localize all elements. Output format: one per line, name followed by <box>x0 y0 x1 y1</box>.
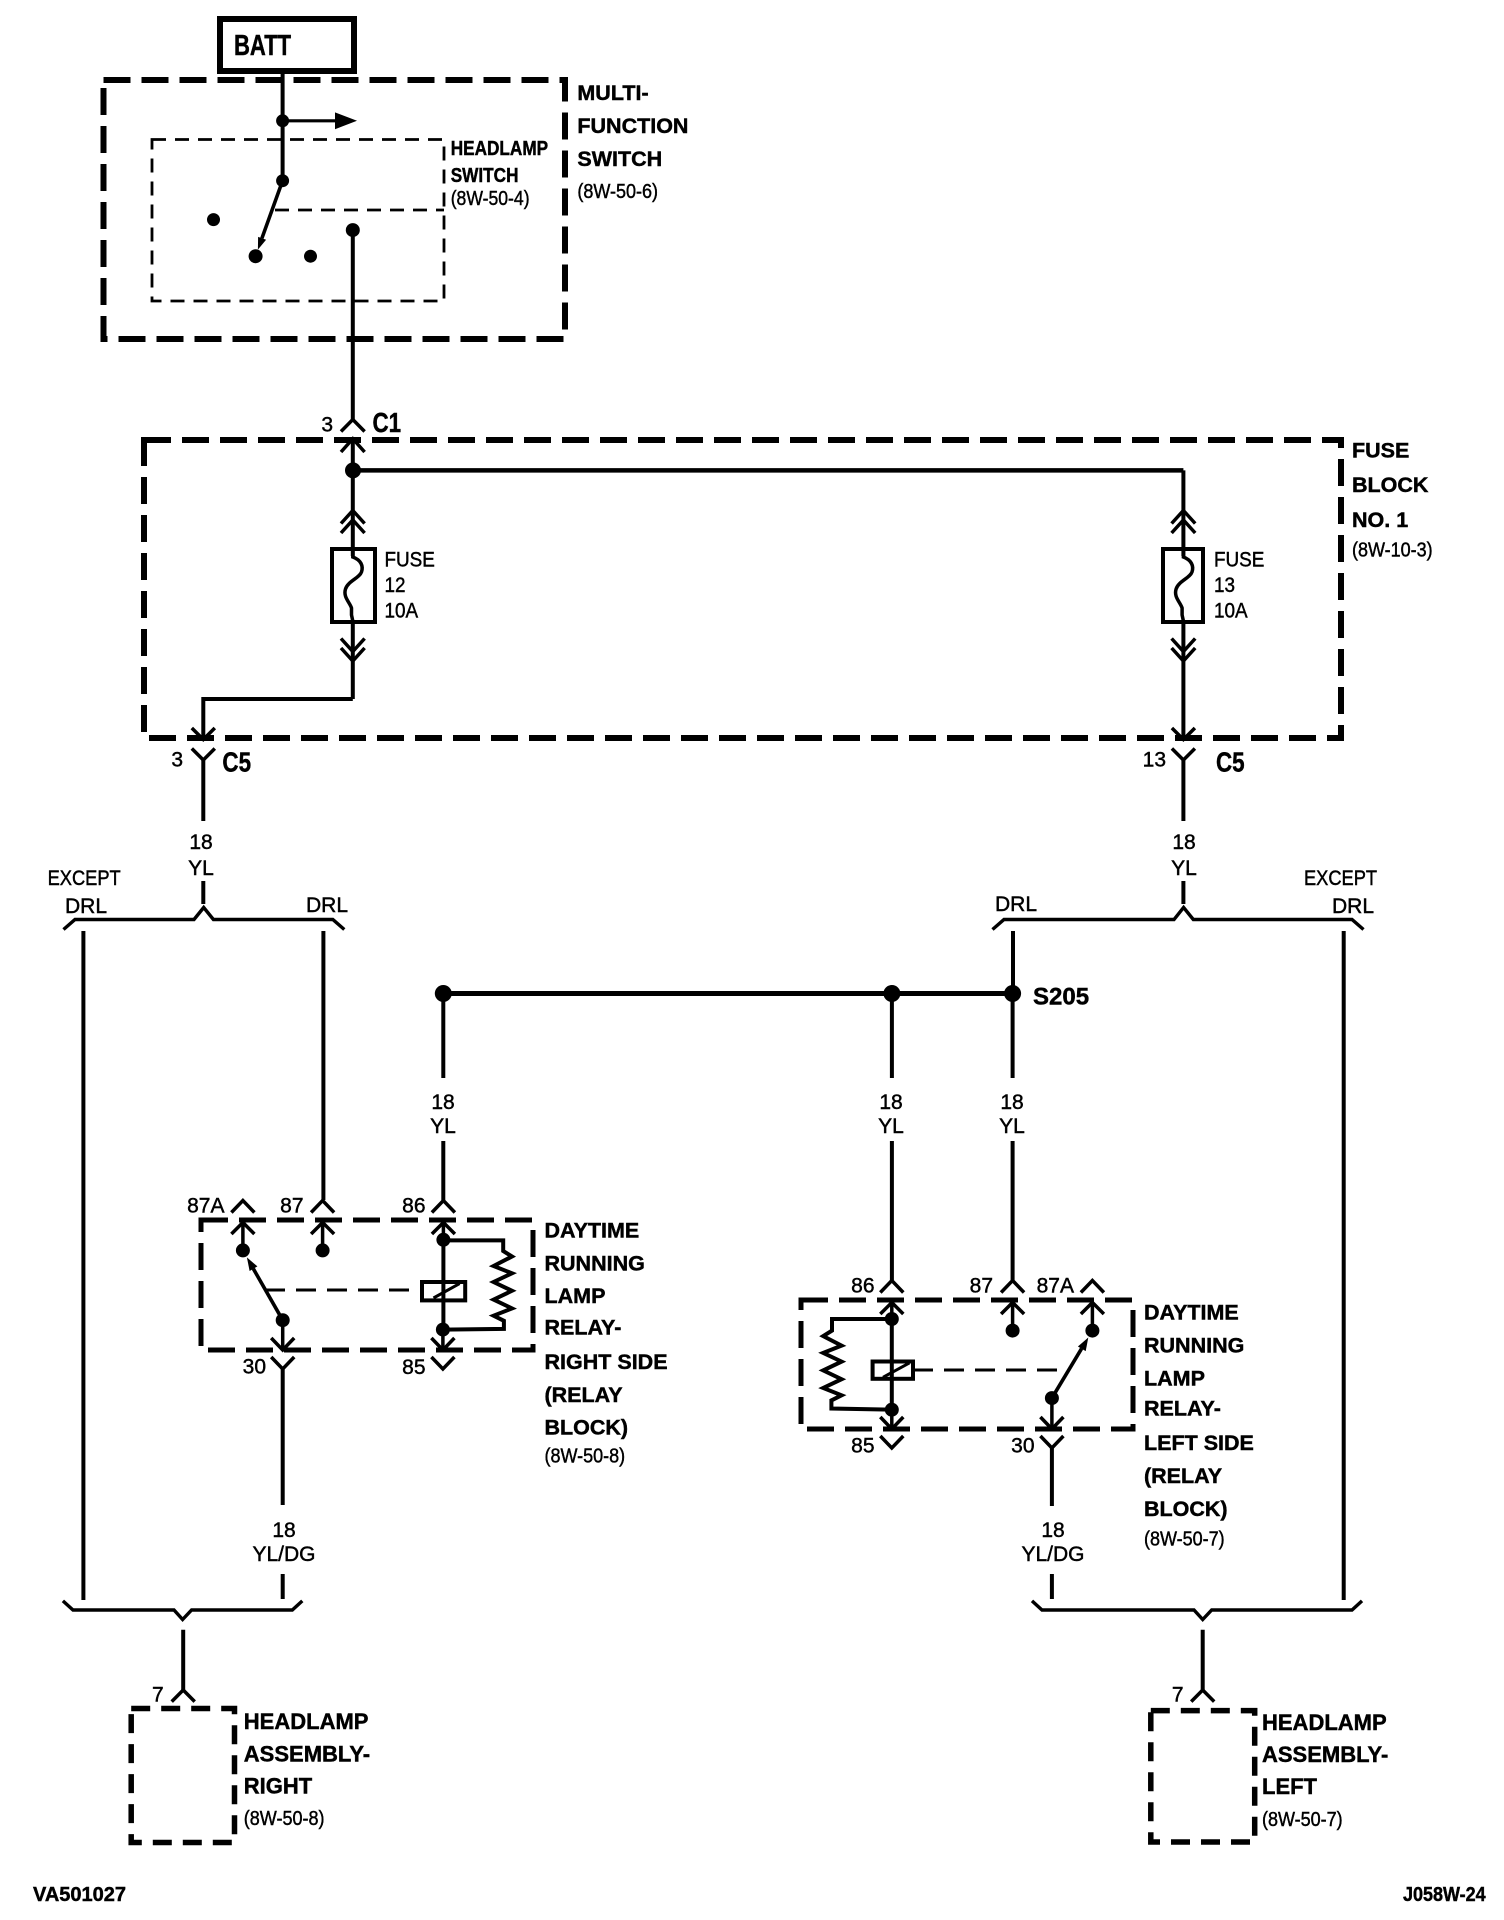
relay actuation dashed link left relay <box>265 1289 422 1292</box>
svg-text:(8W-50-8): (8W-50-8) <box>545 1446 626 1468</box>
svg-text:18: 18 <box>879 1091 902 1114</box>
pin 87 right relay <box>970 1275 1024 1331</box>
svg-text:87A: 87A <box>1037 1275 1074 1298</box>
svg-text:BLOCK): BLOCK) <box>545 1416 629 1440</box>
connector chevrons above fuse 12 <box>341 511 365 534</box>
svg-text:BATT: BATT <box>234 30 291 62</box>
svg-text:RIGHT: RIGHT <box>244 1774 313 1799</box>
node dot 87 left relay <box>316 1243 330 1257</box>
svg-text:DRL: DRL <box>1332 895 1374 918</box>
pin 87 left relay <box>280 1195 334 1251</box>
wire label 18 YL/DG left <box>252 1519 315 1599</box>
svg-text:86: 86 <box>851 1275 874 1298</box>
svg-text:13: 13 <box>1214 574 1235 597</box>
switch common node dot <box>276 174 289 187</box>
node B+ junction dot <box>276 114 289 127</box>
svg-text:DAYTIME: DAYTIME <box>1144 1301 1239 1325</box>
connector chevrons below fuse 12 <box>341 639 365 662</box>
node dot 85 right relay <box>885 1403 899 1417</box>
svg-text:18: 18 <box>1041 1519 1064 1542</box>
wire switch output down to C1 <box>351 230 355 419</box>
svg-text:(8W-10-3): (8W-10-3) <box>1352 540 1433 562</box>
node S205 dot middle <box>883 985 900 1002</box>
node dot 87 right relay <box>1006 1324 1020 1338</box>
svg-text:BLOCK): BLOCK) <box>1144 1497 1228 1521</box>
wire EXCEPT DRL right vertical <box>1342 931 1346 1600</box>
resistor left relay <box>443 1240 512 1329</box>
wire S205 to left relay pin 86 lower <box>441 1141 445 1200</box>
svg-text:(RELAY: (RELAY <box>545 1383 623 1407</box>
svg-text:ASSEMBLY-: ASSEMBLY- <box>1262 1742 1388 1767</box>
headlamp switch inner dashed box <box>152 140 444 302</box>
svg-text:18: 18 <box>1172 831 1195 854</box>
svg-text:BLOCK: BLOCK <box>1352 473 1429 497</box>
svg-text:18: 18 <box>272 1519 295 1542</box>
svg-text:7: 7 <box>1172 1684 1184 1707</box>
svg-text:FUSE: FUSE <box>1214 549 1264 572</box>
svg-text:87: 87 <box>970 1275 993 1298</box>
wire pin 30 down left relay <box>281 1369 285 1505</box>
wire S205 to right relay pin 87 upper <box>1011 994 1015 1079</box>
svg-text:J058W-24: J058W-24 <box>1403 1884 1486 1906</box>
wire label 18 YL right <box>1171 831 1197 904</box>
wire BATT to headlamp switch <box>281 71 285 181</box>
BATT feed box B+ <box>220 19 354 71</box>
switch contact dot middle <box>304 250 317 263</box>
svg-text:C5: C5 <box>1216 747 1245 778</box>
wire EXCEPT DRL left vertical <box>81 931 85 1600</box>
relay coil box right relay <box>873 1362 913 1379</box>
svg-text:RELAY-: RELAY- <box>1144 1397 1221 1421</box>
splice options brace left <box>64 908 345 930</box>
switch contact dot PARK <box>207 213 220 226</box>
svg-text:(8W-50-7): (8W-50-7) <box>1262 1809 1343 1831</box>
svg-text:EXCEPT: EXCEPT <box>48 867 121 890</box>
svg-text:10A: 10A <box>1214 600 1248 623</box>
svg-text:FUNCTION: FUNCTION <box>577 114 688 138</box>
node dot 30 right relay <box>1045 1391 1059 1405</box>
node dot 87A right relay <box>1085 1324 1099 1338</box>
svg-text:13: 13 <box>1143 749 1166 772</box>
svg-text:YL/DG: YL/DG <box>252 1543 315 1566</box>
connector C1 pin 3 <box>321 408 401 471</box>
wire coil vertical left relay <box>441 1240 445 1330</box>
svg-text:LAMP: LAMP <box>545 1284 606 1308</box>
svg-text:FUSE: FUSE <box>1352 439 1409 463</box>
relay actuation dashed link right relay <box>913 1369 1058 1372</box>
svg-text:MULTI-: MULTI- <box>577 81 648 105</box>
headlamp assembly right dashed box <box>131 1709 234 1843</box>
wire DRL left vertical to pin 87 <box>321 931 325 1200</box>
svg-text:LEFT: LEFT <box>1262 1774 1318 1799</box>
pin 30 right relay <box>1011 1398 1063 1457</box>
connector C5 pin 3 exit <box>171 728 251 821</box>
node dot 86 left relay <box>436 1233 450 1247</box>
svg-text:DRL: DRL <box>65 895 107 918</box>
wire down to fuse 13 <box>1181 470 1185 556</box>
svg-text:87A: 87A <box>187 1195 224 1218</box>
svg-text:18: 18 <box>431 1091 454 1114</box>
label EXCEPT DRL left <box>48 867 121 918</box>
svg-text:30: 30 <box>243 1356 266 1379</box>
switch contact dot OFF <box>249 249 263 263</box>
svg-text:30: 30 <box>1011 1435 1034 1458</box>
node dot 86 right relay <box>885 1312 899 1326</box>
svg-text:DRL: DRL <box>995 893 1037 916</box>
wire S205 to right relay pin 86 upper <box>890 994 894 1079</box>
svg-text:LEFT SIDE: LEFT SIDE <box>1144 1431 1254 1455</box>
pin 86 left relay <box>402 1195 455 1240</box>
wire below fuse 12 <box>351 622 355 699</box>
svg-text:3: 3 <box>321 414 333 437</box>
pin 30 left relay <box>243 1320 295 1378</box>
svg-text:HEADLAMP: HEADLAMP <box>244 1709 369 1734</box>
wire label 18 YL/DG right <box>1021 1519 1084 1599</box>
svg-text:HEADLAMP: HEADLAMP <box>1262 1710 1387 1735</box>
label headlamp switch <box>451 137 548 209</box>
wire label 18 YL (left relay 86) <box>430 1091 456 1138</box>
svg-text:SWITCH: SWITCH <box>577 147 662 171</box>
svg-text:VA501027: VA501027 <box>33 1884 126 1906</box>
svg-text:DAYTIME: DAYTIME <box>545 1219 640 1243</box>
connector chevrons below fuse 13 <box>1172 639 1196 662</box>
wire bus to fuse 13 <box>353 468 1183 473</box>
svg-text:HEADLAMP: HEADLAMP <box>451 137 548 160</box>
label headlamp assembly right <box>244 1709 370 1830</box>
node dot 30 left relay <box>276 1313 290 1327</box>
svg-text:LAMP: LAMP <box>1144 1367 1205 1391</box>
arrow to other circuits <box>283 112 357 129</box>
switch blade with arrowhead <box>258 181 283 250</box>
pin 87A left relay <box>187 1195 254 1251</box>
relay switch blade right relay <box>1052 1338 1088 1399</box>
svg-text:RELAY-: RELAY- <box>545 1316 622 1340</box>
svg-text:(8W-50-7): (8W-50-7) <box>1144 1529 1225 1551</box>
svg-text:DRL: DRL <box>306 894 348 917</box>
wire S205 to right relay pin 86 lower <box>890 1141 894 1280</box>
node junction dot at C1 <box>345 462 361 478</box>
label EXCEPT DRL right <box>1304 867 1377 918</box>
wire brace to headlamp right connector <box>181 1630 185 1690</box>
svg-text:YL: YL <box>878 1115 904 1138</box>
svg-text:S205: S205 <box>1033 984 1089 1011</box>
svg-text:ASSEMBLY-: ASSEMBLY- <box>244 1742 370 1767</box>
gather brace bottom left <box>63 1601 302 1620</box>
wire down to fuse 12 <box>351 470 355 556</box>
svg-text:YL: YL <box>188 857 214 880</box>
svg-text:7: 7 <box>152 1684 164 1707</box>
wire jog left to C5 pin 3 <box>203 699 352 740</box>
resistor right relay <box>823 1319 892 1410</box>
wire label 18 YL (right relay 86) <box>878 1091 904 1138</box>
svg-text:(8W-50-6): (8W-50-6) <box>577 181 658 203</box>
relay K1 DRL relay right side dashed box <box>201 1220 533 1350</box>
wire label 18 YL (right relay 87) <box>999 1091 1025 1138</box>
svg-text:87: 87 <box>280 1195 303 1218</box>
svg-text:YL: YL <box>1171 857 1197 880</box>
relay K2 DRL relay left side dashed box <box>801 1300 1133 1429</box>
svg-text:85: 85 <box>402 1356 425 1379</box>
label fuse block no.1 <box>1352 439 1433 562</box>
fuse F13 10A <box>1163 549 1264 623</box>
svg-text:10A: 10A <box>385 600 419 623</box>
headlamp switch sub-section dashed line <box>275 209 444 212</box>
wire below fuse 13 <box>1181 622 1185 740</box>
node S205 dot right <box>1004 985 1021 1002</box>
relay switch blade left relay <box>247 1257 283 1320</box>
wire S205 to right relay pin 87 lower <box>1011 1141 1015 1280</box>
svg-text:RIGHT SIDE: RIGHT SIDE <box>545 1350 668 1374</box>
label daytime running lamp relay right side <box>545 1219 668 1468</box>
svg-text:3: 3 <box>171 749 183 772</box>
svg-text:(8W-50-4): (8W-50-4) <box>451 187 530 209</box>
splice options brace right <box>993 908 1364 930</box>
label multi-function switch <box>577 81 688 203</box>
svg-text:SWITCH: SWITCH <box>451 164 519 187</box>
svg-text:EXCEPT: EXCEPT <box>1304 867 1377 890</box>
svg-text:(8W-50-8): (8W-50-8) <box>244 1808 325 1830</box>
label headlamp assembly left <box>1262 1710 1388 1831</box>
svg-text:YL: YL <box>999 1115 1025 1138</box>
svg-text:YL: YL <box>430 1115 456 1138</box>
svg-text:C5: C5 <box>222 747 251 778</box>
connector chevrons above fuse 13 <box>1172 511 1196 534</box>
svg-text:18: 18 <box>1000 1091 1023 1114</box>
pin 85 left relay <box>402 1330 454 1379</box>
wire S205 to left relay pin 86 upper <box>441 994 445 1079</box>
wire pin 30 down right relay <box>1050 1448 1054 1506</box>
wire brace to headlamp left connector <box>1201 1630 1205 1690</box>
connector C5 pin 13 exit <box>1143 728 1245 821</box>
svg-text:(RELAY: (RELAY <box>1144 1464 1222 1488</box>
svg-text:FUSE: FUSE <box>385 549 435 572</box>
relay coil box left relay <box>422 1282 465 1300</box>
splice S205 bus wire <box>443 991 1013 996</box>
multi-function switch S1 dashed box <box>104 80 566 339</box>
fuse block no.1 dashed box <box>144 440 1341 738</box>
pin 85 right relay <box>851 1410 903 1458</box>
svg-text:86: 86 <box>402 1195 425 1218</box>
svg-text:NO. 1: NO. 1 <box>1352 508 1408 532</box>
pin 86 right relay <box>851 1275 903 1320</box>
node dot 85 left relay <box>436 1323 450 1337</box>
label daytime running lamp relay left side <box>1144 1301 1254 1551</box>
svg-text:85: 85 <box>851 1435 874 1458</box>
headlamp assembly left dashed box <box>1151 1711 1255 1842</box>
node dot 87A left relay <box>236 1243 250 1257</box>
switch output contact dot <box>346 223 360 237</box>
connector pin 7 headlamp right <box>152 1684 195 1707</box>
node S205 dot left <box>435 985 452 1002</box>
svg-text:YL/DG: YL/DG <box>1021 1543 1084 1566</box>
svg-text:RUNNING: RUNNING <box>1144 1334 1244 1358</box>
connector pin 7 headlamp left <box>1172 1684 1214 1707</box>
svg-text:RUNNING: RUNNING <box>545 1252 645 1276</box>
svg-text:18: 18 <box>189 831 212 854</box>
wire DRL right vertical to S205 <box>1011 931 1015 994</box>
svg-text:12: 12 <box>385 574 406 597</box>
wire coil vertical right relay <box>890 1319 894 1410</box>
gather brace bottom right <box>1032 1601 1362 1620</box>
wire label 18 YL left <box>188 831 214 904</box>
fuse F12 10A <box>332 549 435 623</box>
pin 87A right relay <box>1037 1275 1104 1331</box>
svg-text:C1: C1 <box>373 408 402 439</box>
